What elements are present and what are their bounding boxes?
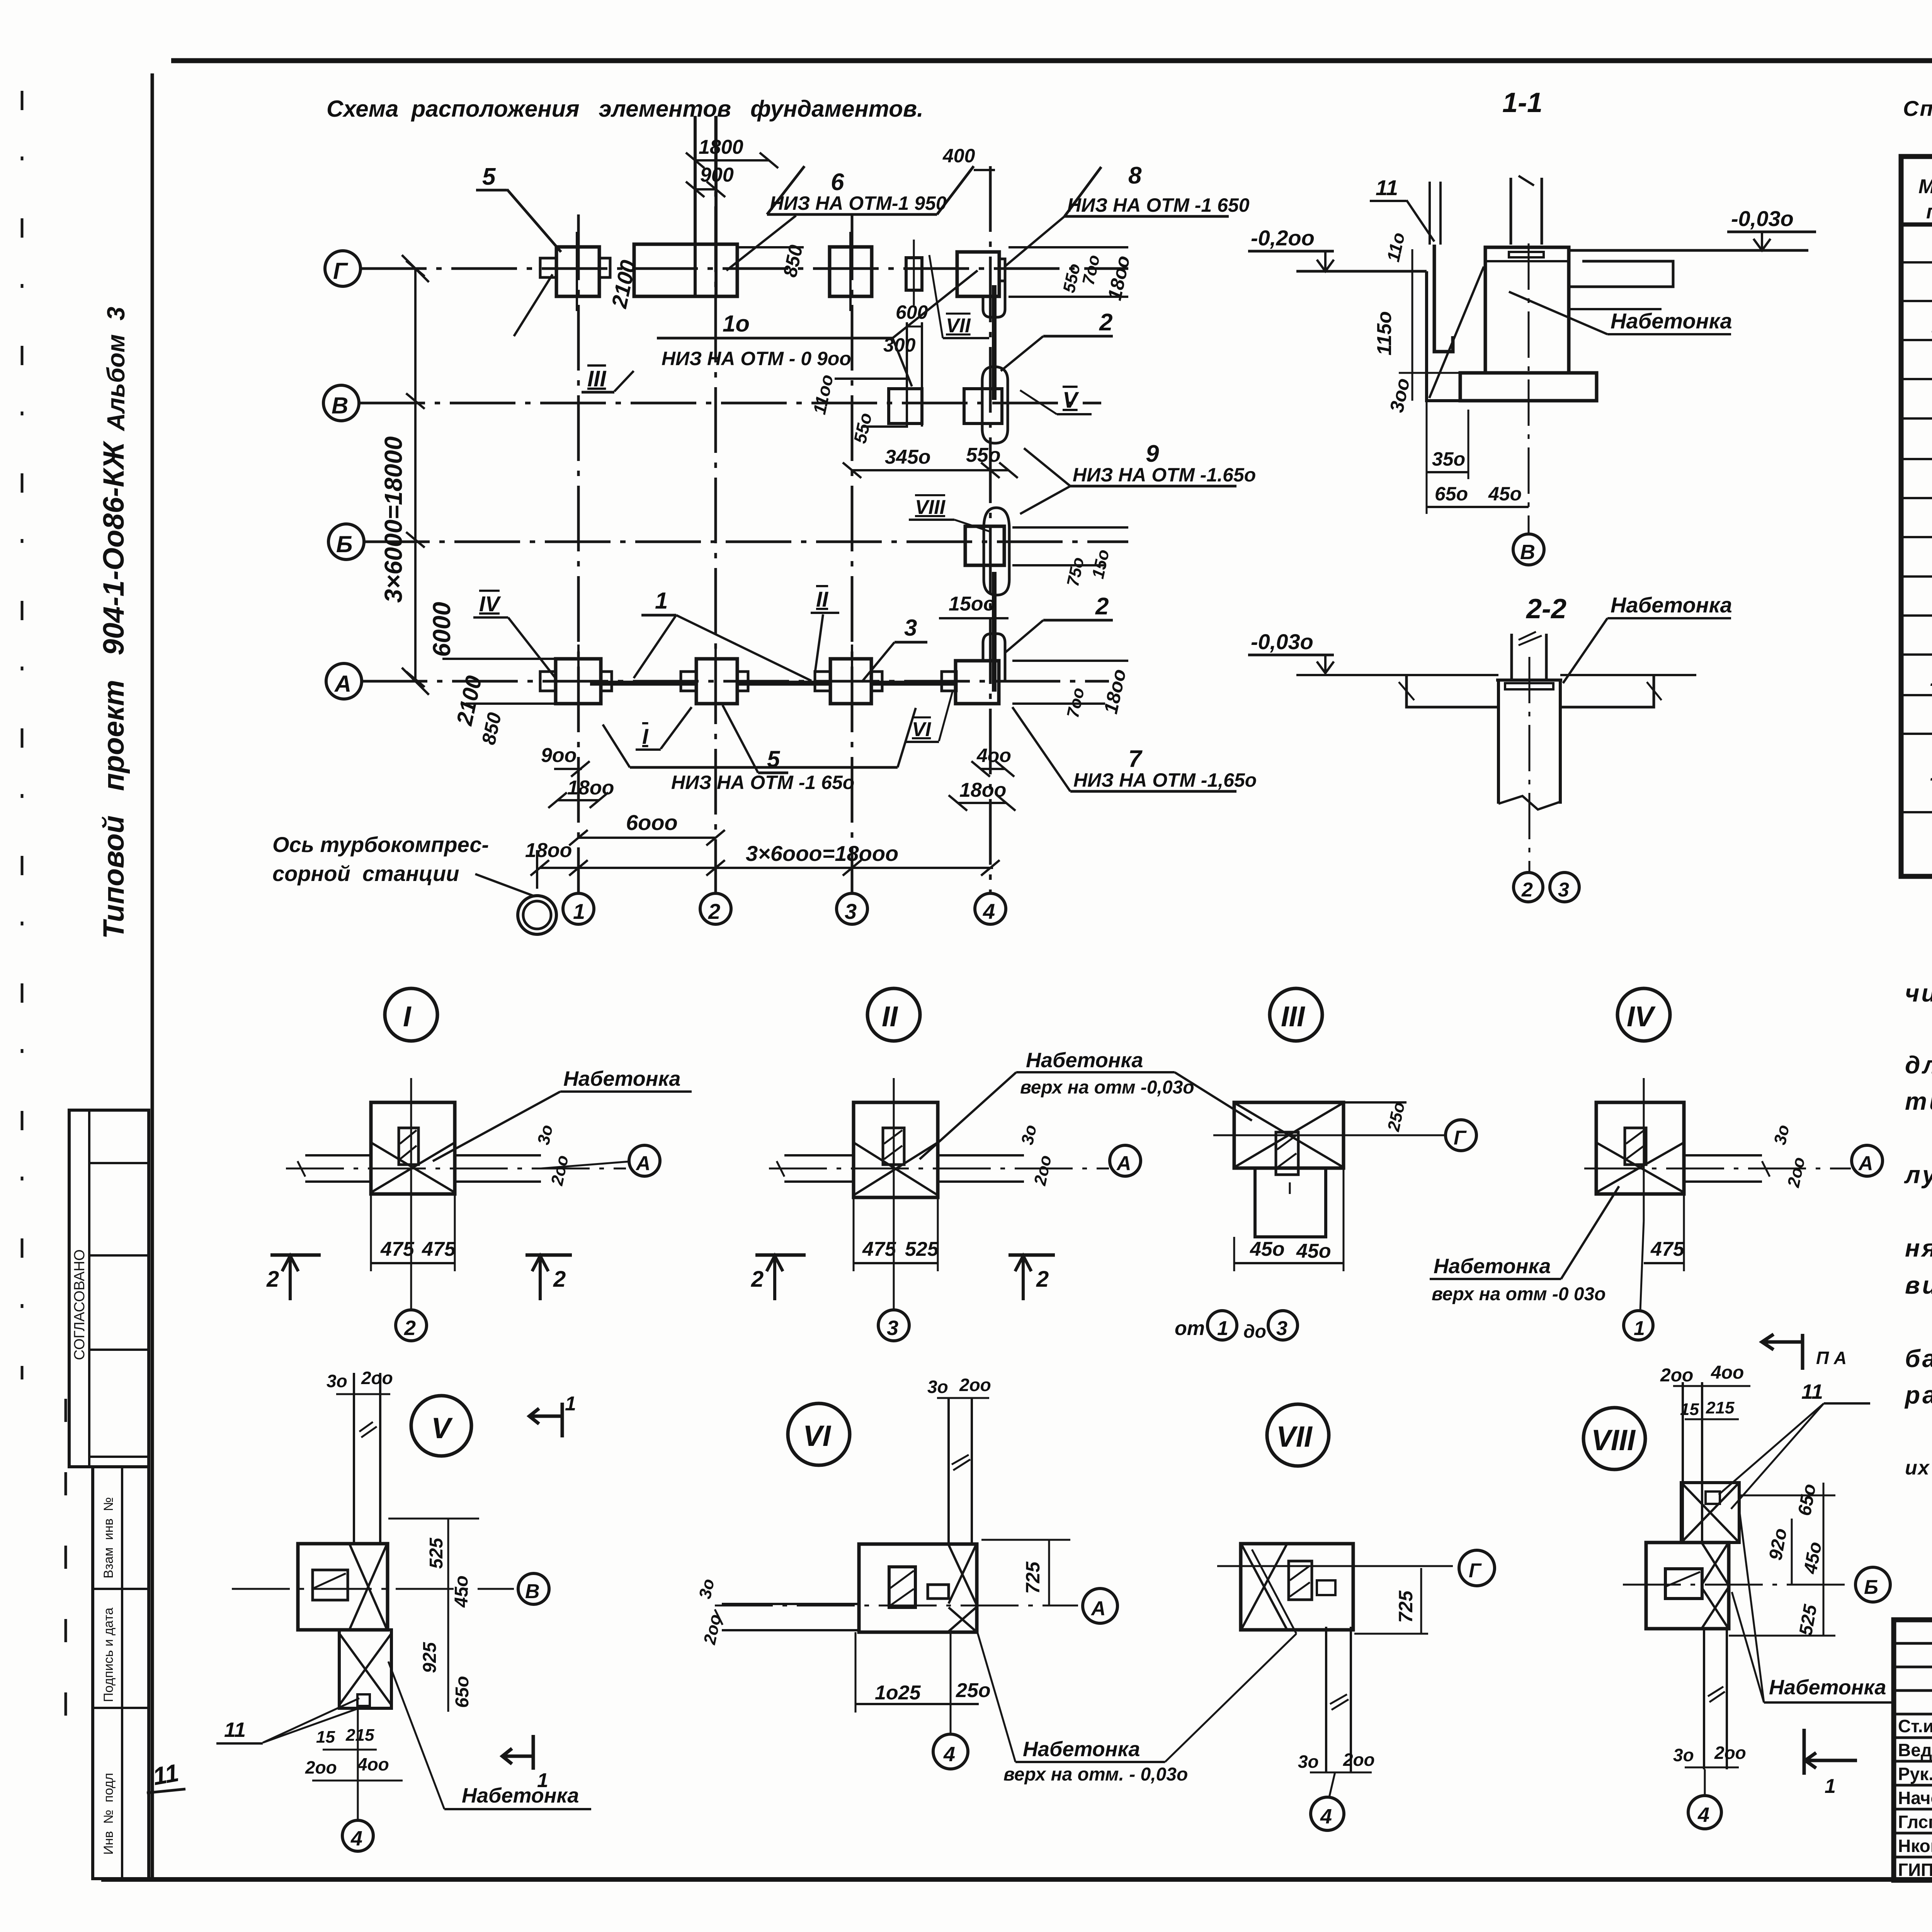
soglasovano stamp box xyxy=(69,1110,149,1467)
circle А xyxy=(629,1145,660,1176)
svg-text:расход бетона равен 1.4м³.: расход бетона равен 1.4м³. xyxy=(1904,1381,1932,1409)
svg-text:В: В xyxy=(525,1580,540,1603)
svg-text:А: А xyxy=(334,671,351,697)
svg-text:3о: 3о xyxy=(1298,1752,1319,1772)
dim 475 xyxy=(1644,1262,1684,1264)
anchor pocket xyxy=(1665,1569,1702,1599)
dim 475 525 xyxy=(854,1262,938,1264)
main square xyxy=(1646,1543,1729,1629)
svg-text:4: 4 xyxy=(1697,1803,1709,1827)
svg-text:3: 3 xyxy=(904,615,917,641)
square xyxy=(859,1544,977,1632)
column above xyxy=(1510,634,1513,680)
square xyxy=(298,1544,388,1630)
svg-text:НИЗ НА ОТМ -1.65о: НИЗ НА ОТМ -1.65о xyxy=(1073,464,1256,486)
svg-text:НИЗ НА ОТМ-1 950: НИЗ НА ОТМ-1 950 xyxy=(770,192,947,214)
circle III xyxy=(1270,988,1322,1041)
circle 3 below xyxy=(878,1310,909,1341)
НИЗ НА ОТМ -1650 bottom center xyxy=(630,766,898,769)
svg-text:2оо: 2оо xyxy=(1714,1743,1746,1763)
leader from VI nabetonka xyxy=(1252,1549,1296,1634)
svg-text:15о: 15о xyxy=(1088,548,1113,580)
base slab xyxy=(1460,373,1597,401)
svg-text:1: 1 xyxy=(565,1393,576,1415)
circle V xyxy=(411,1396,471,1456)
top plate 2-2 xyxy=(1505,683,1553,689)
dim lines at А left: 2100 850 ticks xyxy=(442,658,556,660)
svg-text:600: 600 xyxy=(896,301,928,323)
svg-text:2оо: 2оо xyxy=(361,1368,393,1388)
axis of 2-2 xyxy=(1529,657,1531,872)
svg-text:2: 2 xyxy=(266,1267,279,1292)
foundation at Б-4 xyxy=(984,508,1009,595)
circle А xyxy=(1110,1145,1141,1176)
svg-text:1: 1 xyxy=(655,588,668,614)
svg-text:VI: VI xyxy=(803,1420,832,1452)
header bottom line xyxy=(1901,223,1932,227)
svg-text:верх на отм. - 0,03о: верх на отм. - 0,03о xyxy=(1003,1764,1188,1785)
signature rows text xyxy=(1898,1716,1932,1880)
svg-text:3о: 3о xyxy=(696,1577,718,1600)
svg-text:525: 525 xyxy=(426,1537,447,1569)
right beam xyxy=(1560,675,1654,707)
circle А xyxy=(1083,1588,1117,1623)
svg-text:65о: 65о xyxy=(1794,1482,1820,1517)
svg-text:400: 400 xyxy=(942,145,975,167)
anchor pocket xyxy=(399,1128,418,1165)
svg-text:до: до xyxy=(1243,1321,1266,1342)
floor line right xyxy=(1569,249,1808,252)
svg-text:В: В xyxy=(332,393,348,418)
left frame vertical xyxy=(151,73,154,1881)
axis circle В xyxy=(1513,534,1544,565)
svg-text:VII: VII xyxy=(1276,1420,1313,1453)
svg-text:475: 475 xyxy=(380,1238,415,1260)
circle Б xyxy=(1855,1567,1890,1602)
column line 2 xyxy=(714,116,717,893)
svg-text:345о: 345о xyxy=(885,446,931,468)
circle 2 below xyxy=(396,1310,427,1341)
svg-text:3о: 3о xyxy=(927,1377,948,1397)
svg-text:3о: 3о xyxy=(1770,1123,1793,1146)
diagonal in pit xyxy=(1429,267,1484,398)
svg-text:НИЗ НА ОТМ -1 650: НИЗ НА ОТМ -1 650 xyxy=(1067,194,1250,216)
svg-text:IV: IV xyxy=(479,592,502,616)
svg-text:475: 475 xyxy=(422,1238,456,1260)
axis dash to Б xyxy=(1623,1584,1853,1586)
svg-text:7: 7 xyxy=(1128,746,1143,772)
svg-text:Набетонка: Набетонка xyxy=(1023,1738,1140,1761)
beam strip above xyxy=(1682,1382,1684,1543)
column above pedestal xyxy=(1510,178,1512,245)
svg-text:Вединж: Вединж xyxy=(1898,1740,1932,1760)
svg-text:2оо: 2оо xyxy=(700,1612,725,1646)
svg-text:215: 215 xyxy=(345,1726,374,1745)
vertical strip above Г at column 2 xyxy=(694,116,697,296)
svg-text:нять путем втрамбования в: нять путем втрамбования в грунт щебня ил… xyxy=(1905,1234,1932,1262)
svg-text:900: 900 xyxy=(700,164,734,186)
svg-text:верх на отм -0,03о: верх на отм -0,03о xyxy=(1020,1077,1194,1098)
svg-text:35о: 35о xyxy=(1432,448,1465,470)
left rows xyxy=(1894,1643,1932,1857)
dim vertical line xyxy=(1412,249,1413,401)
svg-text:2оо: 2оо xyxy=(305,1757,337,1777)
anchor pocket xyxy=(889,1567,915,1607)
svg-text:3×6000=18000: 3×6000=18000 xyxy=(379,436,407,603)
circle 4 xyxy=(1311,1797,1344,1830)
svg-text:II: II xyxy=(882,1000,898,1032)
anchor pocket xyxy=(1625,1128,1646,1165)
left wall of pit xyxy=(1427,271,1460,401)
svg-text:I: I xyxy=(642,724,649,748)
svg-text:2: 2 xyxy=(1036,1267,1049,1292)
svg-text:сорной станции: сорной станции xyxy=(272,861,459,886)
section flag 1 ПА top xyxy=(1762,1334,1803,1370)
svg-text:4: 4 xyxy=(350,1827,362,1850)
svg-text:III: III xyxy=(1281,1000,1305,1032)
foundation Фм at А-3 xyxy=(830,659,871,704)
svg-text:Набетонка: Набетонка xyxy=(1434,1255,1551,1278)
svg-text:поз: поз xyxy=(1926,201,1932,223)
svg-text:9оо: 9оо xyxy=(541,744,577,767)
circle II xyxy=(867,988,920,1041)
circle 1 below xyxy=(1624,1311,1653,1340)
column line 1 xyxy=(577,214,580,893)
sheet top border xyxy=(171,58,1932,63)
svg-text:Подпись и дата: Подпись и дата xyxy=(101,1607,116,1702)
svg-text:3: 3 xyxy=(1558,879,1569,901)
svg-text:В: В xyxy=(1520,541,1535,564)
dims right 920 650 450 525 xyxy=(1791,1519,1793,1585)
long beam lines left xyxy=(722,1603,859,1605)
axis circle Г xyxy=(325,251,361,286)
bottom border xyxy=(101,1877,1932,1882)
lower extension xyxy=(339,1630,391,1708)
svg-text:75о: 75о xyxy=(1063,556,1088,588)
axis dash to А xyxy=(715,1605,1078,1607)
svg-text:А: А xyxy=(1116,1152,1131,1175)
X on top part xyxy=(1235,1103,1343,1167)
svg-text:2-2: 2-2 xyxy=(1526,594,1566,624)
centerline xyxy=(893,1078,895,1221)
svg-text:-0,03о: -0,03о xyxy=(1251,629,1313,654)
svg-text:А: А xyxy=(1090,1597,1106,1620)
svg-text:4оо: 4оо xyxy=(976,745,1011,766)
svg-text:Нконтр: Нконтр xyxy=(1898,1836,1932,1856)
dim 450 450 xyxy=(1234,1262,1344,1264)
axis А line xyxy=(362,680,1109,683)
svg-text:850: 850 xyxy=(478,711,505,747)
rounded foundation at В-4 xyxy=(982,367,1008,443)
svg-text:Ст.инж: Ст.инж xyxy=(1898,1716,1932,1736)
svg-text:2: 2 xyxy=(751,1267,764,1292)
svg-text:8: 8 xyxy=(1128,162,1142,189)
svg-text:25о: 25о xyxy=(1384,1100,1409,1133)
dim 725 xyxy=(1420,1568,1422,1634)
svg-text:25о: 25о xyxy=(956,1679,991,1702)
row lines xyxy=(1901,262,1932,812)
svg-text:65о: 65о xyxy=(452,1676,473,1708)
svg-text:3о: 3о xyxy=(1673,1745,1694,1765)
svg-text:чистого пола первого этажа: чистого пола первого этажа машинного зал… xyxy=(1905,979,1932,1007)
left outer dashed line xyxy=(21,91,24,1379)
svg-text:верх на отм -0 03о: верх на отм -0 03о xyxy=(1432,1284,1606,1304)
axis dash xyxy=(769,1168,1109,1170)
bolt strip above xyxy=(1429,182,1431,245)
svg-text:725: 725 xyxy=(1022,1561,1044,1594)
svg-text:Начотд: Начотд xyxy=(1898,1788,1932,1808)
svg-text:Набетонка: Набетонка xyxy=(1611,309,1732,333)
svg-text:2оо: 2оо xyxy=(1031,1153,1055,1187)
svg-text:III: III xyxy=(587,366,607,391)
axis В line xyxy=(359,402,1101,405)
X brace right column xyxy=(1702,1543,1728,1584)
axis dash to А xyxy=(286,1168,626,1170)
svg-text:Г: Г xyxy=(1454,1127,1467,1149)
svg-text:1: 1 xyxy=(537,1769,548,1792)
svg-text:55о: 55о xyxy=(850,411,876,445)
svg-text:2оо: 2оо xyxy=(548,1153,572,1187)
axis Г line xyxy=(361,267,1128,270)
svg-text:11: 11 xyxy=(1930,761,1932,785)
axis dash xyxy=(1584,1168,1851,1170)
svg-text:3о: 3о xyxy=(534,1123,557,1146)
column circle 4 xyxy=(975,893,1006,924)
foundation at Г-3 xyxy=(830,247,872,296)
beam rect on Г xyxy=(634,244,737,296)
circle А xyxy=(1852,1145,1883,1176)
pedestal section xyxy=(1498,680,1560,804)
svg-text:525: 525 xyxy=(905,1238,939,1260)
svg-text:Набетонка: Набетонка xyxy=(462,1784,579,1807)
circle IV xyxy=(1617,988,1670,1041)
svg-text:-0,2оо: -0,2оо xyxy=(1251,226,1315,250)
dim 1025 250 xyxy=(855,1703,979,1705)
svg-text:СОГЛАСОВАНО: СОГЛАСОВАНО xyxy=(71,1249,88,1360)
dim 475 475 xyxy=(371,1262,455,1264)
svg-text:45о: 45о xyxy=(1250,1238,1285,1260)
circle I xyxy=(385,988,437,1041)
svg-text:Набетонка: Набетонка xyxy=(1026,1049,1143,1072)
svg-text:балок выполнить набетонки и: балок выполнить набетонки из бетоня клас… xyxy=(1905,1345,1932,1372)
square xyxy=(1596,1102,1684,1194)
circle 4 xyxy=(933,1734,968,1769)
svg-text:Набетонка: Набетонка xyxy=(1611,593,1732,617)
svg-text:11: 11 xyxy=(1376,175,1398,200)
X brace right part xyxy=(949,1545,976,1604)
dims right 525 450 925 650 xyxy=(447,1519,449,1712)
svg-text:525: 525 xyxy=(1796,1603,1821,1637)
beam strip above xyxy=(353,1373,355,1544)
circle VI xyxy=(788,1403,850,1465)
axis circle В xyxy=(323,385,359,421)
svg-text:3: 3 xyxy=(887,1316,898,1340)
svg-text:2: 2 xyxy=(1099,309,1112,336)
svg-text:215: 215 xyxy=(1706,1398,1735,1417)
inventory stamp box xyxy=(93,1467,149,1879)
pedestal xyxy=(1485,247,1569,373)
right beam xyxy=(1569,261,1673,287)
svg-text:11о: 11о xyxy=(1383,231,1409,264)
svg-text:11оо: 11оо xyxy=(809,373,837,416)
circle VIII xyxy=(1583,1408,1645,1469)
ground line xyxy=(1296,674,1498,676)
svg-text:Схема расположения элементо: Схема расположения элементов фундаментов… xyxy=(327,96,923,122)
svg-text:15: 15 xyxy=(316,1728,335,1747)
X brace left part xyxy=(1242,1544,1287,1629)
X brace xyxy=(372,1143,454,1192)
column circle 2 xyxy=(700,893,731,924)
section marks 2 xyxy=(767,1256,783,1300)
svg-text:3о: 3о xyxy=(327,1371,347,1391)
svg-text:-0,03о: -0,03о xyxy=(1731,206,1794,231)
svg-text:475: 475 xyxy=(862,1238,896,1260)
svg-text:1о: 1о xyxy=(1930,666,1932,690)
svg-text:18оо: 18оо xyxy=(525,839,572,862)
svg-text:3×6ооо=18ооо: 3×6ооо=18ооо xyxy=(746,841,898,866)
svg-text:6: 6 xyxy=(831,169,844,196)
svg-text:3о: 3о xyxy=(1018,1123,1041,1146)
svg-text:VIII: VIII xyxy=(1591,1424,1636,1457)
dim 3450 550 xyxy=(852,469,1009,471)
svg-text:VI: VI xyxy=(912,718,932,741)
svg-text:Б: Б xyxy=(1864,1576,1878,1599)
circle VII xyxy=(1267,1404,1329,1466)
svg-text:2оо: 2оо xyxy=(1660,1365,1693,1386)
svg-text:типовому проекту.: типовому проекту. xyxy=(1905,1087,1932,1115)
X brace right part xyxy=(350,1544,387,1629)
left beam xyxy=(1406,675,1498,707)
column line 3 xyxy=(851,214,854,893)
svg-text:Типовой проект 904-1-Оо86-: Типовой проект 904-1-Оо86-КЖ xyxy=(97,440,130,939)
svg-text:Рук.гр: Рук.гр xyxy=(1898,1764,1932,1784)
svg-text:2: 2 xyxy=(553,1267,566,1292)
svg-text:11: 11 xyxy=(1801,1380,1823,1403)
svg-text:Г: Г xyxy=(333,258,349,284)
table outer box xyxy=(1901,156,1932,876)
beam lines right xyxy=(455,1154,541,1156)
svg-text:7оо: 7оо xyxy=(1079,253,1104,287)
svg-text:3оо: 3оо xyxy=(1386,376,1414,415)
axis circle А xyxy=(326,663,362,699)
svg-text:Г: Г xyxy=(1469,1560,1482,1582)
turbocompressor axis double circle xyxy=(518,896,556,934)
square xyxy=(1241,1544,1353,1630)
svg-text:45о: 45о xyxy=(1296,1240,1331,1262)
svg-text:1-1: 1-1 xyxy=(1502,87,1543,118)
beam strip below xyxy=(1703,1629,1705,1769)
svg-text:4: 4 xyxy=(983,899,995,923)
svg-text:А: А xyxy=(635,1152,651,1175)
main title block box xyxy=(1894,1620,1932,1880)
svg-text:11: 11 xyxy=(224,1718,246,1742)
svg-text:Спецификация к схеме рас: Спецификация к схеме расположения элемен… xyxy=(1903,96,1932,121)
svg-text:4оо: 4оо xyxy=(1711,1362,1744,1383)
svg-text:2: 2 xyxy=(1095,593,1109,620)
upper square xyxy=(1681,1483,1739,1543)
svg-text:ГИП: ГИП xyxy=(1898,1860,1932,1880)
beams right xyxy=(1684,1154,1762,1156)
svg-text:45о: 45о xyxy=(1800,1540,1826,1576)
circle 4 xyxy=(1688,1796,1721,1829)
svg-text:115о: 115о xyxy=(1373,311,1396,355)
foundation Фм at А-1 xyxy=(556,659,601,704)
svg-text:925: 925 xyxy=(420,1642,440,1673)
svg-text:Взам инв №: Взам инв № xyxy=(101,1497,116,1578)
svg-text:2оо: 2оо xyxy=(1343,1750,1375,1770)
square xyxy=(371,1102,455,1194)
axis dash to В xyxy=(232,1588,514,1590)
svg-text:1800: 1800 xyxy=(699,136,743,158)
svg-text:НИЗ НА ОТМ -1,65о: НИЗ НА ОТМ -1,65о xyxy=(1073,769,1257,791)
circle Г xyxy=(1459,1550,1495,1586)
svg-text:1: 1 xyxy=(1825,1775,1836,1798)
circle Г xyxy=(1446,1120,1476,1151)
svg-text:18оо: 18оо xyxy=(1104,253,1134,302)
beam thick line on А xyxy=(590,681,696,686)
svg-text:6000: 6000 xyxy=(428,602,456,657)
small square at В strip xyxy=(889,389,922,423)
beam strip above xyxy=(947,1398,950,1544)
centerline vertical xyxy=(410,1078,412,1221)
section flag 1 top xyxy=(529,1403,562,1437)
section flag 1 bottom xyxy=(502,1735,533,1770)
svg-text:вия крупностью 40- 60мм.: вия крупностью 40- 60мм. xyxy=(1905,1271,1932,1299)
dim 250 xyxy=(1344,1101,1406,1104)
svg-text:V: V xyxy=(1063,388,1079,413)
svg-text:лубке серии 1.412-1/77.: лубке серии 1.412-1/77. xyxy=(1904,1161,1932,1189)
dim slash ticks xyxy=(406,153,1018,876)
section marks 2 xyxy=(401,1211,402,1223)
svg-text:4оо: 4оо xyxy=(357,1754,389,1774)
anchor pocket xyxy=(1276,1132,1298,1175)
svg-text:4: 4 xyxy=(943,1743,955,1766)
svg-text:45о: 45о xyxy=(1488,483,1522,505)
svg-text:18оо: 18оо xyxy=(567,777,614,799)
dim 1800 top xyxy=(695,159,769,162)
dim 900 top xyxy=(695,188,716,190)
svg-text:от: от xyxy=(1175,1317,1205,1340)
svg-text:Набетонка: Набетонка xyxy=(563,1067,680,1090)
svg-text:3: 3 xyxy=(1276,1317,1287,1340)
axis circle Б xyxy=(328,524,364,560)
svg-text:VII: VII xyxy=(946,315,971,337)
svg-text:1о: 1о xyxy=(723,311,750,337)
beams xyxy=(784,1154,854,1156)
ground line left xyxy=(1296,270,1427,273)
square xyxy=(1234,1102,1344,1168)
svg-text:1о25: 1о25 xyxy=(875,1682,921,1704)
svg-text:475: 475 xyxy=(1650,1238,1685,1260)
anchor pocket xyxy=(1289,1561,1312,1600)
svg-text:2: 2 xyxy=(708,899,720,923)
svg-text:5: 5 xyxy=(482,163,496,190)
column line 4 xyxy=(989,166,992,893)
svg-text:15оо: 15оо xyxy=(949,593,995,615)
svg-text:Ось турбокомпрес-: Ось турбокомпрес- xyxy=(272,832,489,857)
square xyxy=(854,1102,938,1197)
beam strip below xyxy=(1325,1627,1327,1772)
left dim line 3x6000=18000 xyxy=(414,269,417,681)
svg-text:1: 1 xyxy=(1217,1317,1228,1340)
L foundation at А-4 xyxy=(956,661,999,704)
column circle 1 xyxy=(563,893,594,924)
svg-text:65о: 65о xyxy=(1435,483,1468,505)
foundation Фм at А-2 xyxy=(696,659,737,704)
svg-text:2оо: 2оо xyxy=(1784,1155,1809,1189)
dim 725 xyxy=(1048,1540,1050,1606)
svg-text:V: V xyxy=(431,1412,453,1445)
